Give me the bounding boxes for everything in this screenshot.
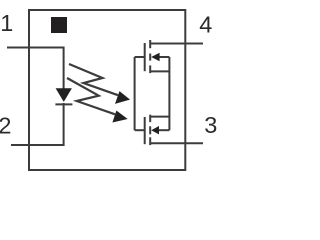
svg-text:1: 1: [0, 10, 13, 36]
svg-text:4: 4: [199, 12, 212, 38]
svg-text:3: 3: [204, 112, 217, 138]
svg-text:2: 2: [0, 113, 11, 139]
